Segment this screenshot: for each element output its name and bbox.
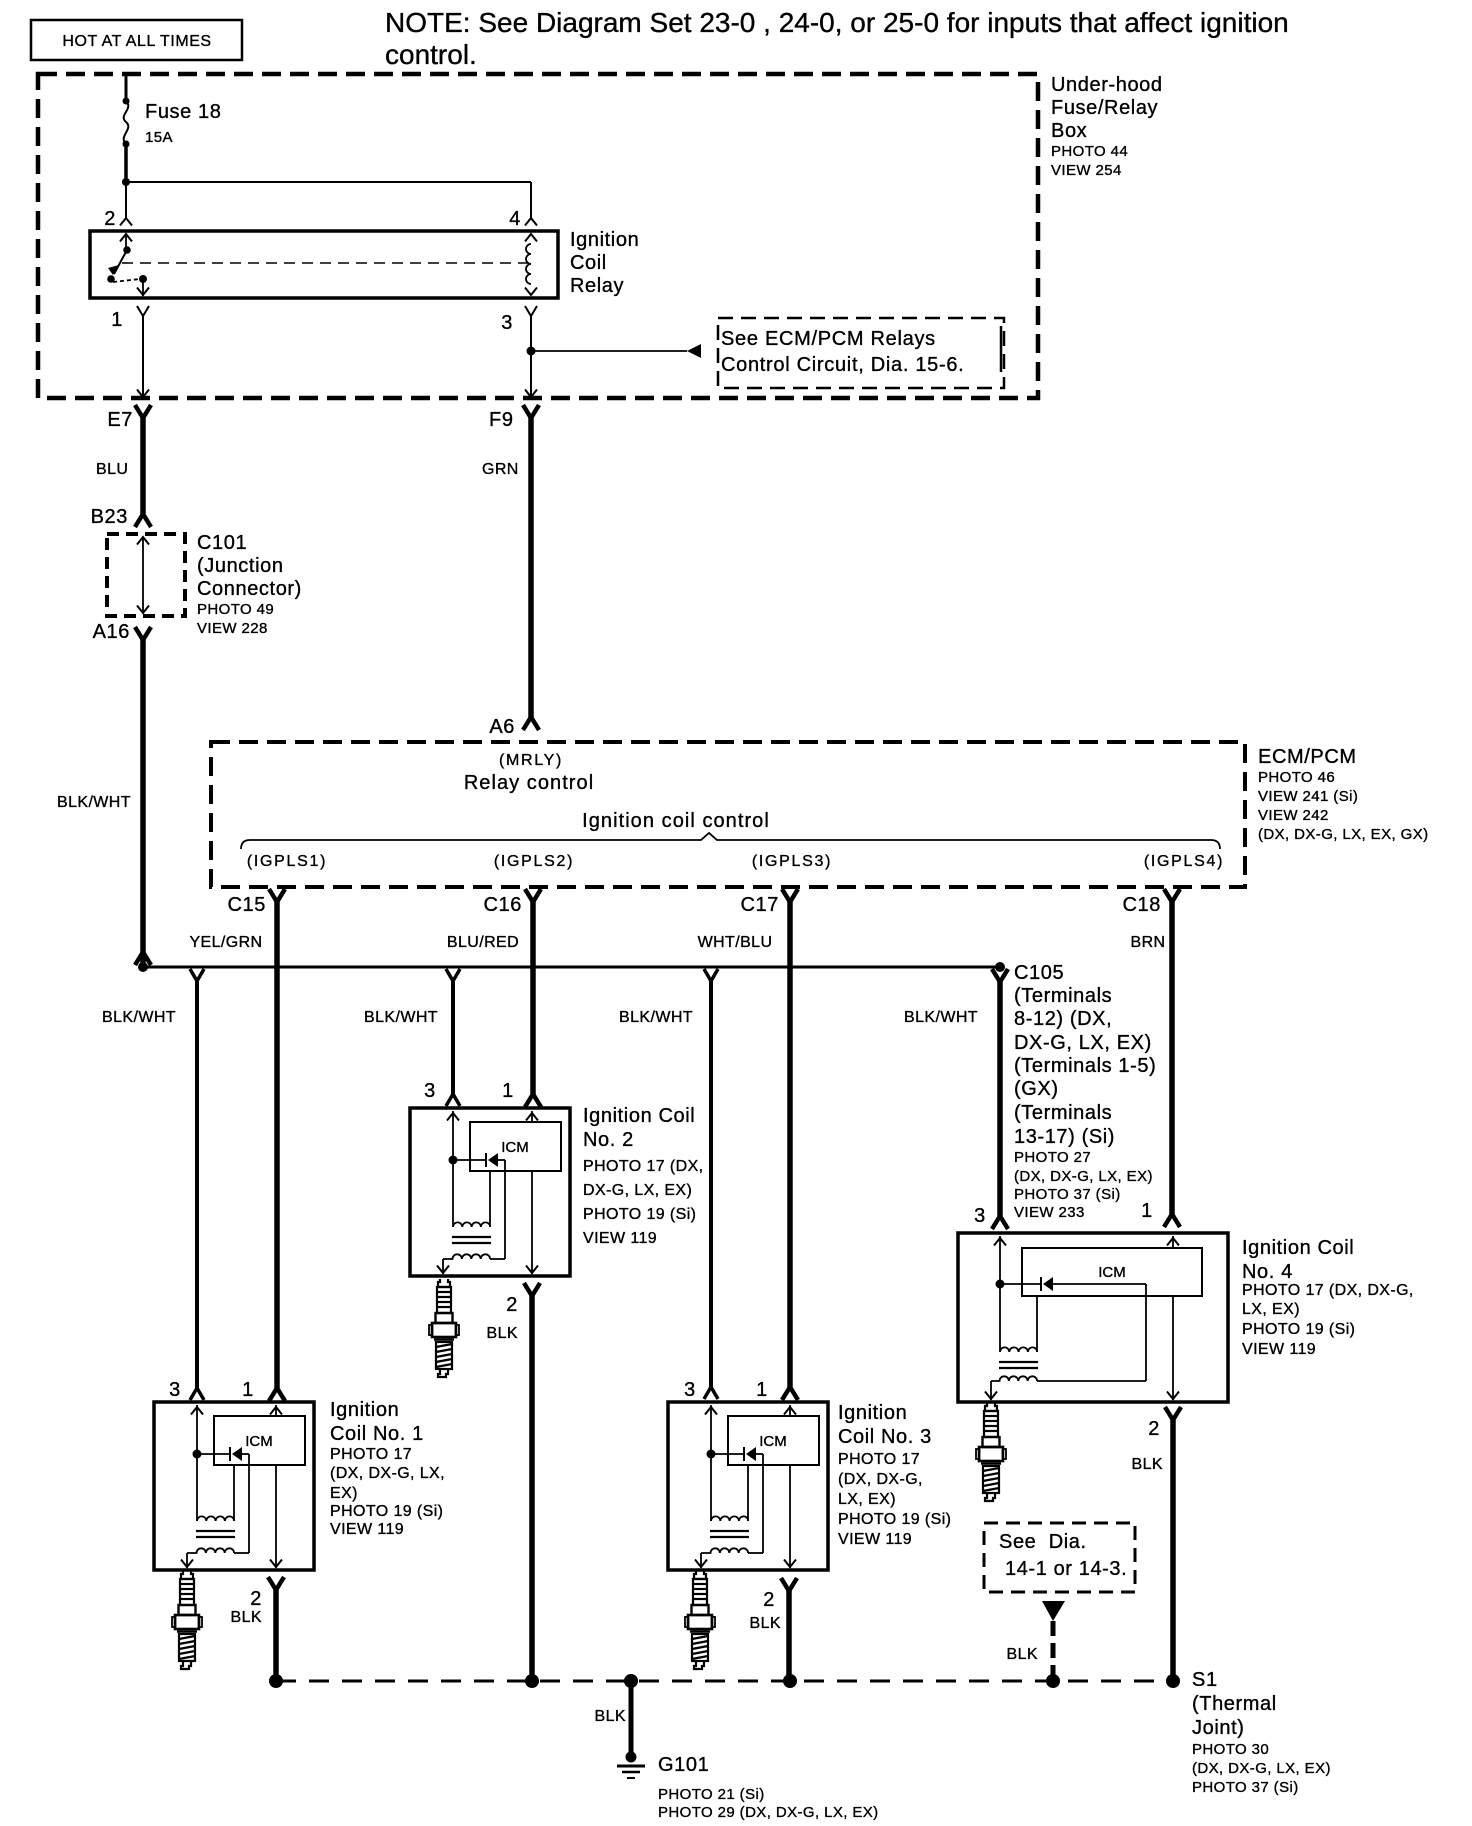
svg-text:Relay control: Relay control — [464, 772, 594, 794]
svg-text:S1: S1 — [1192, 1669, 1218, 1691]
svg-text:BLK/WHT: BLK/WHT — [904, 1009, 978, 1026]
svg-text:A16: A16 — [93, 621, 130, 643]
svg-text:2: 2 — [1148, 1418, 1160, 1440]
svg-text:BLK/WHT: BLK/WHT — [57, 794, 131, 811]
svg-text:HOT AT ALL TIMES: HOT AT ALL TIMES — [62, 33, 211, 50]
svg-text:3: 3 — [501, 312, 513, 334]
svg-text:(IGPLS4): (IGPLS4) — [1144, 853, 1224, 870]
svg-text:ICM: ICM — [1098, 1264, 1126, 1281]
svg-text:Fuse/Relay: Fuse/Relay — [1051, 97, 1158, 119]
svg-text:1: 1 — [111, 309, 123, 331]
svg-text:(DX, DX-G, LX, EX): (DX, DX-G, LX, EX) — [1192, 1760, 1331, 1777]
svg-text:EX): EX) — [330, 1485, 358, 1502]
svg-text:2: 2 — [763, 1589, 775, 1611]
svg-text:2: 2 — [506, 1294, 518, 1316]
svg-text:C101: C101 — [197, 532, 247, 554]
svg-text:No. 4: No. 4 — [1242, 1261, 1293, 1283]
svg-text:3: 3 — [974, 1205, 986, 1227]
svg-text:LX, EX): LX, EX) — [1242, 1301, 1300, 1318]
svg-text:15A: 15A — [145, 129, 173, 146]
svg-text:B23: B23 — [91, 506, 128, 528]
svg-text:2: 2 — [104, 208, 116, 230]
svg-text:Joint): Joint) — [1192, 1717, 1245, 1739]
svg-text:(IGPLS3): (IGPLS3) — [752, 853, 832, 870]
svg-text:PHOTO 19 (Si): PHOTO 19 (Si) — [330, 1503, 443, 1520]
svg-text:F9: F9 — [489, 409, 514, 431]
svg-text:(DX, DX-G,: (DX, DX-G, — [838, 1471, 923, 1488]
svg-text:VIEW 119: VIEW 119 — [583, 1230, 657, 1247]
svg-text:E7: E7 — [107, 409, 133, 431]
svg-text:C16: C16 — [484, 894, 523, 916]
svg-text:4: 4 — [509, 208, 521, 230]
svg-text:Ignition coil control: Ignition coil control — [582, 810, 770, 832]
svg-text:PHOTO 19 (Si): PHOTO 19 (Si) — [1242, 1321, 1355, 1338]
svg-text:G101: G101 — [658, 1754, 709, 1776]
svg-text:Ignition Coil: Ignition Coil — [583, 1105, 695, 1127]
svg-text:BLK: BLK — [1132, 1456, 1163, 1473]
svg-text:BLU: BLU — [96, 461, 128, 478]
svg-text:PHOTO 49: PHOTO 49 — [197, 601, 274, 618]
svg-text:1: 1 — [1141, 1200, 1153, 1222]
svg-text:Ignition Coil: Ignition Coil — [1242, 1237, 1354, 1259]
svg-text:1: 1 — [756, 1379, 768, 1401]
svg-text:(GX): (GX) — [1014, 1078, 1059, 1100]
svg-text:BLK/WHT: BLK/WHT — [102, 1009, 176, 1026]
svg-text:C17: C17 — [741, 894, 780, 916]
svg-text:BLK: BLK — [595, 1708, 626, 1725]
svg-text:Fuse 18: Fuse 18 — [145, 101, 221, 123]
svg-text:13-17) (Si): 13-17) (Si) — [1014, 1126, 1115, 1148]
svg-text:(Junction: (Junction — [197, 555, 284, 577]
svg-text:Coil: Coil — [570, 252, 607, 274]
svg-text:PHOTO 17: PHOTO 17 — [838, 1451, 920, 1468]
svg-text:PHOTO 21 (Si): PHOTO 21 (Si) — [658, 1786, 765, 1803]
svg-text:YEL/GRN: YEL/GRN — [189, 934, 262, 951]
svg-text:Box: Box — [1051, 120, 1087, 142]
svg-text:PHOTO 17 (DX,: PHOTO 17 (DX, — [583, 1158, 704, 1175]
svg-text:BLK: BLK — [487, 1325, 518, 1342]
svg-text:3: 3 — [684, 1379, 696, 1401]
svg-text:Ignition: Ignition — [570, 229, 639, 251]
svg-text:Coil No. 3: Coil No. 3 — [838, 1426, 932, 1448]
svg-text:1: 1 — [242, 1379, 254, 1401]
svg-text:A6: A6 — [489, 716, 515, 738]
svg-text:Under-hood: Under-hood — [1051, 74, 1163, 96]
svg-text:(MRLY): (MRLY) — [499, 752, 563, 769]
svg-text:DX-G, LX, EX): DX-G, LX, EX) — [583, 1182, 692, 1199]
svg-text:8-12) (DX,: 8-12) (DX, — [1014, 1008, 1112, 1030]
svg-text:No. 2: No. 2 — [583, 1129, 634, 1151]
svg-text:3: 3 — [424, 1080, 436, 1102]
svg-text:WHT/BLU: WHT/BLU — [698, 934, 773, 951]
svg-text:Connector): Connector) — [197, 578, 302, 600]
svg-text:(DX, DX-G, LX,: (DX, DX-G, LX, — [330, 1465, 445, 1482]
svg-text:3: 3 — [169, 1379, 181, 1401]
svg-text:PHOTO 29 (DX, DX-G, LX, EX): PHOTO 29 (DX, DX-G, LX, EX) — [658, 1804, 879, 1821]
svg-text:PHOTO 37 (Si): PHOTO 37 (Si) — [1014, 1186, 1121, 1203]
svg-text:C15: C15 — [228, 894, 267, 916]
svg-text:1: 1 — [502, 1080, 514, 1102]
svg-text:BLK: BLK — [750, 1615, 781, 1632]
svg-text:ECM/PCM: ECM/PCM — [1258, 746, 1357, 768]
svg-text:VIEW 119: VIEW 119 — [330, 1521, 404, 1538]
svg-text:GRN: GRN — [482, 461, 519, 478]
svg-text:VIEW 119: VIEW 119 — [838, 1531, 912, 1548]
svg-text:BLK: BLK — [231, 1609, 262, 1626]
svg-text:PHOTO 30: PHOTO 30 — [1192, 1741, 1269, 1758]
svg-text:See ECM/PCM Relays: See ECM/PCM Relays — [721, 328, 936, 350]
svg-text:Relay: Relay — [570, 275, 624, 297]
svg-text:VIEW 242: VIEW 242 — [1258, 807, 1329, 824]
svg-text:PHOTO 17: PHOTO 17 — [330, 1446, 412, 1463]
svg-text:VIEW 233: VIEW 233 — [1014, 1204, 1085, 1221]
svg-text:C105: C105 — [1014, 962, 1064, 984]
svg-text:Coil No. 1: Coil No. 1 — [330, 1423, 424, 1445]
svg-text:VIEW 254: VIEW 254 — [1051, 162, 1122, 179]
svg-text:BLK: BLK — [1007, 1646, 1038, 1663]
svg-text:BRN: BRN — [1131, 934, 1166, 951]
svg-text:Control Circuit, Dia. 15-6.: Control Circuit, Dia. 15-6. — [721, 354, 964, 376]
svg-text:(IGPLS1): (IGPLS1) — [247, 853, 327, 870]
svg-text:control.: control. — [385, 39, 477, 70]
svg-text:PHOTO 27: PHOTO 27 — [1014, 1149, 1091, 1166]
svg-text:PHOTO 46: PHOTO 46 — [1258, 769, 1335, 786]
svg-text:DX-G, LX, EX): DX-G, LX, EX) — [1014, 1032, 1152, 1054]
svg-text:(Terminals: (Terminals — [1014, 985, 1112, 1007]
svg-text:(Terminals 1-5): (Terminals 1-5) — [1014, 1055, 1156, 1077]
svg-text:BLK/WHT: BLK/WHT — [619, 1009, 693, 1026]
svg-text:(DX, DX-G, LX, EX): (DX, DX-G, LX, EX) — [1014, 1168, 1153, 1185]
svg-text:PHOTO 37 (Si): PHOTO 37 (Si) — [1192, 1779, 1299, 1796]
svg-text:See Dia.: See Dia. — [999, 1531, 1087, 1553]
svg-text:(DX, DX-G, LX, EX, GX): (DX, DX-G, LX, EX, GX) — [1258, 826, 1429, 843]
svg-text:Ignition: Ignition — [838, 1402, 907, 1424]
svg-text:VIEW 241 (Si): VIEW 241 (Si) — [1258, 788, 1358, 805]
svg-text:PHOTO 17 (DX, DX-G,: PHOTO 17 (DX, DX-G, — [1242, 1282, 1414, 1299]
svg-text:LX, EX): LX, EX) — [838, 1491, 896, 1508]
svg-text:NOTE: See Diagram Set 23-0 , 2: NOTE: See Diagram Set 23-0 , 24-0, or 25… — [385, 7, 1289, 38]
svg-text:(Terminals: (Terminals — [1014, 1102, 1112, 1124]
svg-text:C18: C18 — [1123, 894, 1162, 916]
svg-text:(IGPLS2): (IGPLS2) — [494, 853, 574, 870]
svg-text:Ignition: Ignition — [330, 1399, 399, 1421]
svg-text:14-1 or 14-3.: 14-1 or 14-3. — [1005, 1558, 1127, 1580]
svg-text:BLU/RED: BLU/RED — [447, 934, 519, 951]
svg-text:PHOTO 19 (Si): PHOTO 19 (Si) — [838, 1511, 951, 1528]
svg-text:2: 2 — [250, 1588, 262, 1610]
svg-text:VIEW 119: VIEW 119 — [1242, 1341, 1316, 1358]
svg-text:PHOTO 19 (Si): PHOTO 19 (Si) — [583, 1206, 696, 1223]
svg-text:VIEW 228: VIEW 228 — [197, 620, 268, 637]
svg-text:PHOTO 44: PHOTO 44 — [1051, 143, 1128, 160]
svg-text:BLK/WHT: BLK/WHT — [364, 1009, 438, 1026]
svg-text:(Thermal: (Thermal — [1192, 1693, 1277, 1715]
